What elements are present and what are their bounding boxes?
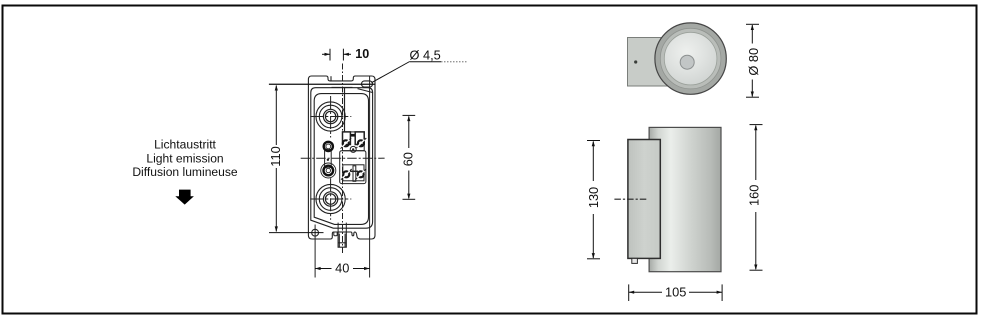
svg-text:Lichtaustritt: Lichtaustritt	[154, 138, 216, 152]
svg-text:40: 40	[335, 261, 349, 276]
svg-text:60: 60	[400, 152, 415, 166]
svg-text:10: 10	[355, 47, 369, 61]
svg-text:105: 105	[665, 284, 686, 299]
svg-text:130: 130	[586, 187, 601, 208]
svg-text:110: 110	[268, 146, 283, 166]
svg-text:160: 160	[747, 185, 762, 206]
svg-text:Light emission: Light emission	[146, 151, 223, 165]
svg-text:Diffusion lumineuse: Diffusion lumineuse	[132, 165, 238, 179]
svg-text:Ø 4,5: Ø 4,5	[410, 47, 441, 62]
svg-text:Ø 80: Ø 80	[746, 48, 761, 76]
